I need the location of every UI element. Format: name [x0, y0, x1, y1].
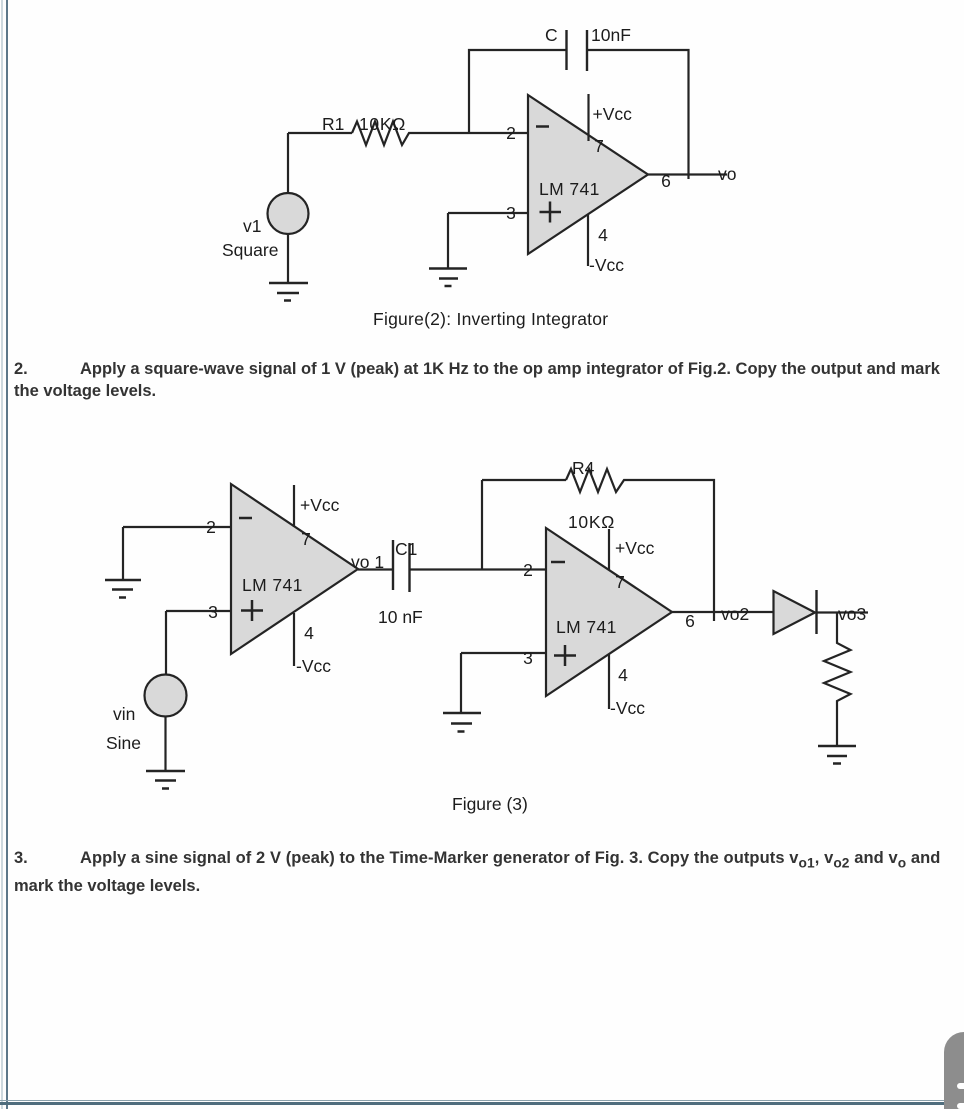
- svg-text:10 nF: 10 nF: [378, 607, 423, 627]
- svg-text:-Vcc: -Vcc: [296, 656, 331, 676]
- svg-text:7: 7: [615, 572, 625, 592]
- svg-text:vo: vo: [718, 164, 736, 184]
- svg-text:3: 3: [523, 648, 533, 668]
- svg-text:2: 2: [506, 123, 516, 143]
- svg-text:R1: R1: [322, 114, 344, 134]
- svg-text:6: 6: [685, 611, 695, 631]
- svg-text:Figure (3): Figure (3): [452, 794, 528, 814]
- svg-text:10KΩ: 10KΩ: [568, 512, 615, 532]
- svg-text:2: 2: [523, 560, 533, 580]
- svg-text:3: 3: [208, 602, 218, 622]
- svg-text:R4: R4: [572, 458, 595, 478]
- svg-text:Square: Square: [222, 240, 278, 260]
- svg-text:-Vcc: -Vcc: [610, 698, 645, 718]
- svg-text:10nF: 10nF: [591, 25, 631, 45]
- svg-text:vo3: vo3: [838, 604, 866, 624]
- svg-text:Sine: Sine: [106, 733, 141, 753]
- svg-text:7: 7: [301, 529, 311, 549]
- svg-text:6: 6: [661, 171, 671, 191]
- svg-text:+Vcc: +Vcc: [615, 538, 655, 558]
- svg-text:4: 4: [304, 623, 314, 643]
- svg-text:4: 4: [598, 225, 608, 245]
- svg-text:3: 3: [506, 203, 516, 223]
- svg-text:vo 1: vo 1: [351, 552, 384, 572]
- svg-text:2: 2: [206, 517, 216, 537]
- svg-text:+Vcc: +Vcc: [593, 104, 633, 124]
- svg-text:v1: v1: [243, 216, 261, 236]
- svg-text:LM 741: LM 741: [539, 179, 600, 199]
- svg-text:+Vcc: +Vcc: [300, 495, 340, 515]
- svg-text:10KΩ: 10KΩ: [359, 114, 406, 134]
- svg-text:C: C: [545, 25, 558, 45]
- svg-text:-Vcc: -Vcc: [589, 255, 624, 275]
- svg-text:7: 7: [594, 136, 604, 156]
- svg-text:Figure(2): Inverting Integrato: Figure(2): Inverting Integrator: [373, 309, 608, 329]
- svg-text:4: 4: [618, 665, 628, 685]
- svg-text:LM 741: LM 741: [556, 617, 617, 637]
- svg-text:LM 741: LM 741: [242, 575, 303, 595]
- svg-text:vo2: vo2: [721, 604, 749, 624]
- svg-text:C1: C1: [395, 539, 417, 559]
- svg-text:vin: vin: [113, 704, 135, 724]
